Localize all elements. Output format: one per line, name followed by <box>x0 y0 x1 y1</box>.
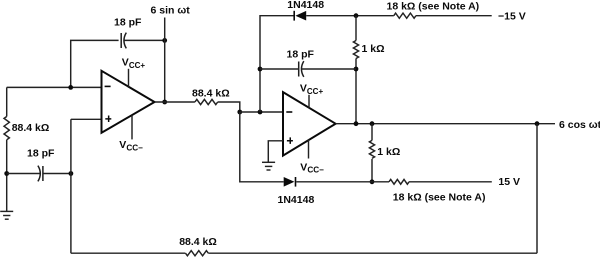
resistor R1 88.4 kOhm (left vertical) <box>4 117 49 140</box>
capacitor C3 18 pF <box>287 49 315 77</box>
svg-text:18 kΩ (see Note A): 18 kΩ (see Note A) <box>387 0 480 12</box>
wire: R3 to -15V terminal <box>416 15 492 17</box>
wire: R5 to bottom row <box>371 159 373 182</box>
wire: U2 plus input to ground <box>268 141 283 163</box>
wire: bottom feedback row left part <box>208 252 537 254</box>
wire: right feedback vertical x537 <box>536 124 538 254</box>
resistor R2 88.4 kOhm (series) <box>192 87 230 104</box>
resistor R7 88.4 kOhm (bottom feedback) <box>179 236 217 256</box>
node: U1 output <box>162 100 167 105</box>
node: C3 right junction <box>354 67 359 72</box>
node: bottom junction x372 <box>370 179 375 184</box>
svg-text:18 kΩ (see Note A): 18 kΩ (see Note A) <box>393 191 486 203</box>
svg-text:88.4 kΩ: 88.4 kΩ <box>179 236 217 248</box>
node: junction x260 <box>258 110 263 115</box>
svg-text:18 pF: 18 pF <box>287 49 315 61</box>
node: C2 right / feedback junction <box>69 171 74 176</box>
op-amp U2 <box>283 92 336 156</box>
svg-text:6 sin ωt: 6 sin ωt <box>151 4 191 16</box>
wire: 6 sin wt vertical <box>164 18 166 103</box>
wire: C1 feedback vertical left <box>71 40 119 87</box>
resistor R5 1 kOhm (bottom vertical) <box>369 140 400 158</box>
wire: C1 to output node <box>124 39 164 41</box>
wire: D2 to bottom 18k <box>296 181 389 183</box>
node: C3 left junction <box>258 67 263 72</box>
node: top junction x356 <box>354 13 359 18</box>
svg-text:1N4148: 1N4148 <box>278 194 315 206</box>
capacitor C1 18 pF <box>114 16 142 48</box>
wire: to U2 inverting input <box>240 111 283 113</box>
U1 VCC+ pin <box>122 56 146 86</box>
svg-text:88.4 kΩ: 88.4 kΩ <box>12 122 50 134</box>
capacitor C2 18 pF <box>27 148 55 182</box>
U1 VCC- pin <box>119 115 143 152</box>
resistor R6 18 kOhm (bottom) <box>389 179 485 203</box>
wire: top row diode to -15V <box>306 15 394 17</box>
svg-text:1 kΩ: 1 kΩ <box>362 43 385 55</box>
op-amp U1 <box>102 71 155 133</box>
node: output junction x372 <box>370 121 375 126</box>
U2 VCC+ pin <box>300 82 324 108</box>
wire: R2 to U2 minus node <box>218 102 240 112</box>
wire: U1 plus input row <box>71 118 102 120</box>
svg-text:18 pF: 18 pF <box>27 148 55 160</box>
wire: left column below R1 to ground <box>6 140 8 212</box>
svg-text:1 kΩ: 1 kΩ <box>377 146 400 158</box>
wire: feedback vertical x71 <box>70 119 72 253</box>
node: C1/output junction <box>162 38 167 43</box>
ground: U2 plus input <box>262 162 275 170</box>
wire: C2 right lead <box>43 173 71 175</box>
svg-text:6 cos ωt: 6 cos ωt <box>559 119 600 131</box>
resistor R3 18 kOhm (top) <box>387 0 480 18</box>
node: C2 left junction <box>4 171 9 176</box>
wire: U2 output row to 6 cos wt <box>336 123 555 125</box>
resistor R4 1 kOhm (top vertical) <box>353 41 384 59</box>
node: U1 minus input junction <box>68 85 73 90</box>
U2 VCC- pin <box>300 140 324 175</box>
wire: x240 down to bottom diode row <box>240 112 284 182</box>
svg-text:18 pF: 18 pF <box>114 16 142 28</box>
ground: left <box>0 211 13 219</box>
wire: R4 to C3 junction and down to output <box>355 59 357 124</box>
wire: C3 right lead <box>302 68 356 70</box>
wire: x356 down to R4 <box>355 16 357 41</box>
wire: x372 down to R5 <box>371 124 373 141</box>
node: output junction x537 <box>535 121 540 126</box>
svg-text:88.4 kΩ: 88.4 kΩ <box>192 87 230 99</box>
svg-text:−15 V: −15 V <box>498 10 526 22</box>
wire: vertical x260 up to top row <box>260 16 294 112</box>
wire: left column above R1 <box>6 87 8 116</box>
node: junction x240 <box>237 110 242 115</box>
wire: U1 output to R2 <box>155 101 195 103</box>
node: output junction x356 <box>354 121 359 126</box>
diode D1 1N4148 (top, pointing left) <box>287 0 324 21</box>
svg-text:1N4148: 1N4148 <box>287 0 324 11</box>
wire: bottom feedback row right part <box>71 252 185 254</box>
diode D2 1N4148 (bottom, pointing right) <box>278 177 315 206</box>
wire: U1 inverting input row <box>7 86 102 88</box>
wire: R6 to 15V terminal <box>409 181 492 183</box>
wire: C2 left lead <box>7 173 40 175</box>
wire: C3 left lead <box>260 68 298 70</box>
svg-text:15 V: 15 V <box>498 176 520 188</box>
